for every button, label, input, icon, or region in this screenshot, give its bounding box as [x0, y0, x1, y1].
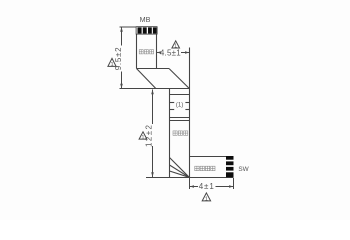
- strip left edge: [169, 89, 171, 178]
- arrow up: [120, 27, 123, 32]
- note triangle T3: [139, 132, 147, 139]
- connector MB contacts: [138, 27, 157, 33]
- svg-text:1: 1: [174, 44, 177, 50]
- dim line 9.5 upper part: [121, 27, 123, 46]
- svg-text:MB: MB: [140, 15, 151, 24]
- strip rule y=120.5: [170, 120, 190, 122]
- bottom band bottom edge: [146, 177, 234, 179]
- strip rule y=117.5: [170, 117, 190, 119]
- svg-text:4±1: 4±1: [199, 182, 215, 191]
- bottom fold diagonal 1: [170, 158, 190, 178]
- connector MB body left edge: [136, 34, 138, 68]
- dimension 9.5±2 extension line top: [120, 27, 137, 89]
- note triangle T4: [202, 193, 210, 201]
- wire: connector bottom edge to fold, y=68: [137, 68, 170, 70]
- bottom fold diagonal 3: [170, 171, 190, 177]
- dim line 9.5 lower part: [121, 72, 123, 89]
- connector MB body right edge: [156, 34, 158, 68]
- bottom band top edge: [190, 156, 227, 158]
- tick pair y=102.5: [170, 102, 175, 104]
- text 印字面 (MB body) simulated glyphs: [139, 50, 153, 54]
- connector SW contacts: [226, 156, 234, 177]
- svg-text:12±2: 12±2: [145, 124, 154, 147]
- strip rule y=94.5: [170, 94, 190, 96]
- dimension 4.5±1: [157, 52, 190, 54]
- extension line for 4.5 dim: [189, 48, 191, 89]
- dimension 4±1: [190, 178, 234, 189]
- wire: long horizontal line y=88.5: [120, 88, 190, 90]
- dimension 12±2: [152, 90, 154, 178]
- note triangle T2: [172, 41, 180, 48]
- arrow down: [120, 84, 123, 89]
- svg-text:1: 1: [205, 197, 208, 203]
- strip right edge: [189, 89, 191, 178]
- svg-text:SW: SW: [238, 166, 249, 173]
- fold crease 2: [169, 69, 189, 89]
- svg-text:1: 1: [110, 62, 113, 68]
- svg-text:(1): (1): [176, 102, 183, 108]
- text 印字面 (lower strip) simulated glyphs: [173, 131, 188, 135]
- connector MB outline: [136, 27, 157, 34]
- svg-text:4.5±1: 4.5±1: [160, 48, 181, 57]
- note triangle T1: [108, 58, 116, 66]
- fold crease 1: [137, 69, 156, 89]
- bottom fold diagonal 2: [170, 165, 190, 177]
- text 无印字面 (bottom band) simulated glyphs: [195, 166, 215, 171]
- svg-text:1: 1: [142, 135, 145, 141]
- tick pair y=109.5: [170, 109, 175, 111]
